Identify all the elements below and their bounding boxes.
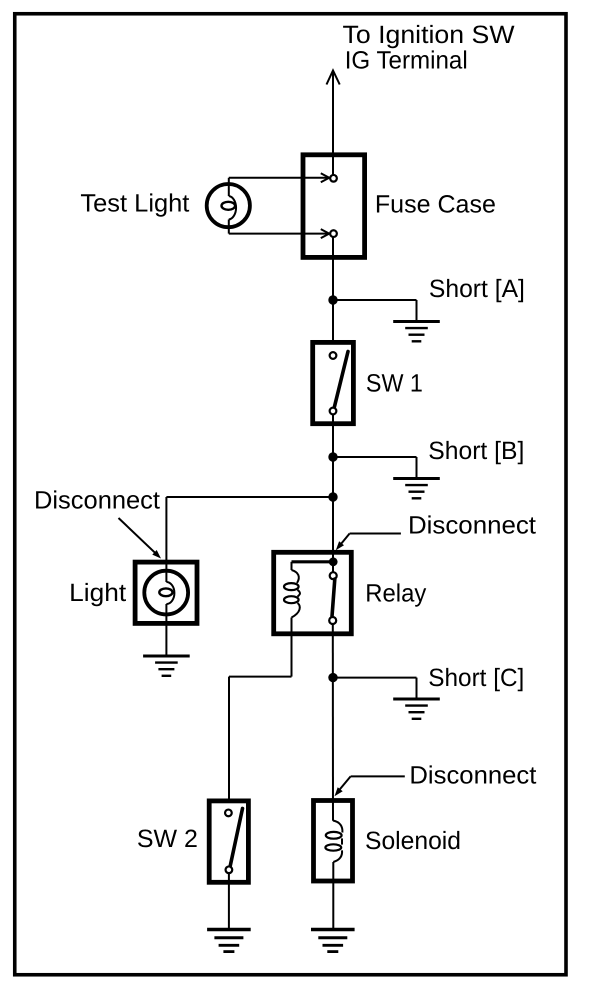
svg-text:Relay: Relay: [365, 579, 426, 607]
svg-text:Short [B]: Short [B]: [428, 437, 524, 465]
svg-text:Short [C]: Short [C]: [428, 664, 524, 692]
svg-text:SW 2: SW 2: [137, 825, 198, 853]
svg-text:IG Terminal: IG Terminal: [345, 47, 468, 75]
svg-text:Fuse Case: Fuse Case: [375, 190, 496, 218]
svg-text:To Ignition SW: To Ignition SW: [343, 21, 515, 49]
svg-text:Solenoid: Solenoid: [365, 827, 461, 855]
svg-text:Disconnect: Disconnect: [408, 512, 536, 540]
svg-text:Disconnect: Disconnect: [409, 762, 536, 790]
svg-text:Disconnect: Disconnect: [34, 487, 160, 515]
svg-text:SW 1: SW 1: [366, 370, 423, 398]
svg-text:Short [A]: Short [A]: [429, 275, 525, 303]
svg-text:Test Light: Test Light: [80, 190, 189, 218]
svg-text:Light: Light: [69, 579, 126, 607]
